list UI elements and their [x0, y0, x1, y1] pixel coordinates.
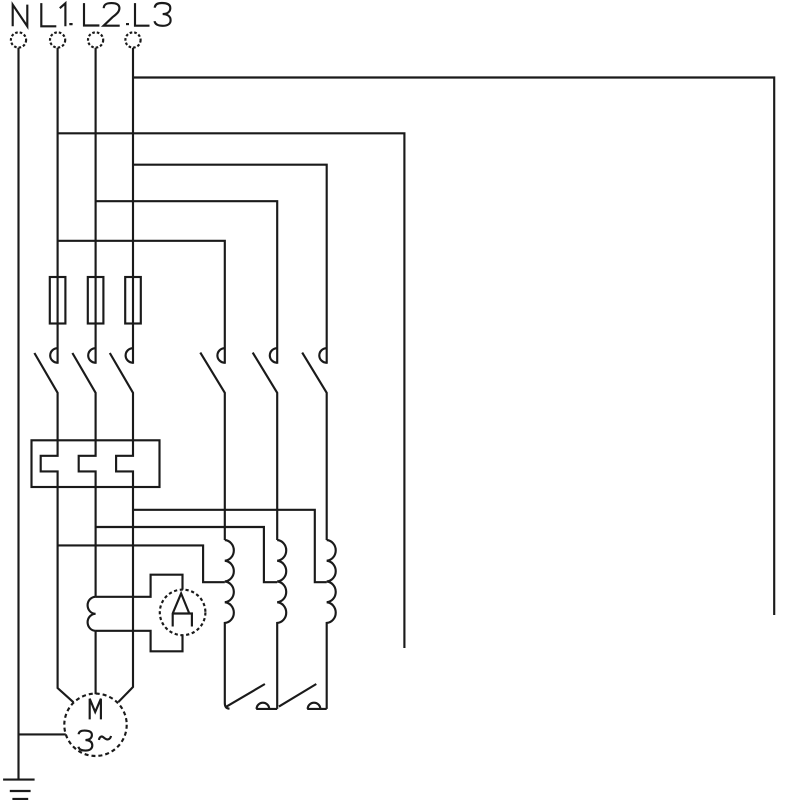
wire tap C jog	[133, 510, 327, 582]
motor label 3	[78, 731, 92, 751]
ammeter loop top wire	[96, 575, 183, 597]
wire branch L2 to contactor K2 pole B	[96, 201, 278, 364]
contactor K1 pole 2	[72, 348, 95, 440]
fuse F1	[50, 277, 66, 324]
thermal overload relay F0 box	[32, 440, 160, 487]
terminal L3	[125, 32, 140, 47]
contactor K2 pole B	[253, 348, 278, 540]
contactor K2 pole A	[200, 348, 225, 540]
contactor K3 contact a fixed	[257, 703, 270, 709]
contactor K3 contact b blade	[279, 684, 316, 707]
motor M1 circle	[64, 694, 126, 756]
wire L3 vertical	[132, 48, 134, 364]
contactor K1 pole 1	[34, 348, 57, 440]
wire L2 vertical	[95, 48, 97, 364]
fuse F3	[125, 277, 141, 324]
label L3	[135, 3, 171, 26]
current transformer winding on phase 2	[88, 597, 96, 631]
autotransformer coil C	[327, 540, 336, 709]
wire branch L1 to x404 rail	[58, 133, 405, 648]
wire K3 a to coil B	[256, 708, 277, 710]
terminal L2	[88, 32, 103, 47]
ammeter A1 circle	[160, 590, 206, 636]
ground	[3, 779, 34, 781]
label L2.	[84, 3, 120, 26]
ammeter loop bottom wire	[96, 631, 183, 652]
contactor K2 pole C	[302, 348, 327, 540]
ammeter letter A	[173, 593, 192, 626]
wire W phase 3 to motor	[118, 487, 133, 702]
contactor K3 contact b fixed	[308, 703, 321, 709]
overload heater element phase 2	[79, 440, 96, 487]
terminal N	[11, 32, 26, 47]
wire branch L3 to contactor K2 pole C	[133, 165, 327, 364]
wire K3 b to coil C	[307, 708, 327, 710]
motor letter M	[90, 699, 101, 720]
wire branch L3 to right rail	[133, 78, 774, 616]
wire L1 vertical	[57, 48, 59, 364]
fuse F2	[88, 277, 104, 324]
wire branch L1 to contactor K2 pole A	[58, 241, 225, 364]
wire N vertical	[17, 48, 19, 780]
overload heater element phase 1	[41, 440, 58, 487]
label L1.	[41, 3, 72, 26]
autotransformer coil A	[225, 540, 234, 709]
terminal L1	[50, 32, 65, 47]
autotransformer coil B	[277, 540, 286, 709]
wire V phase 2 upper	[95, 487, 97, 597]
wire tap A jog	[58, 545, 225, 582]
wire tap B jog	[96, 527, 278, 582]
label N	[13, 5, 28, 27]
wire V phase 2 lower to motor	[95, 631, 97, 694]
overload heater element phase 3	[116, 440, 133, 487]
wire N to motor	[19, 733, 66, 735]
motor label tilde	[99, 736, 111, 740]
contactor K3 contact a blade	[227, 684, 265, 707]
contactor K1 pole 3	[110, 348, 133, 440]
wire U phase 1 to motor	[58, 487, 74, 702]
